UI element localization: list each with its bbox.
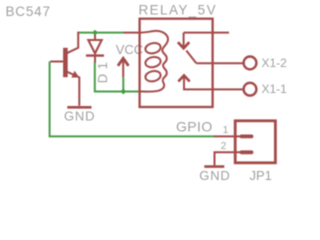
wire VCC to junction	[122, 77, 124, 91]
svg-text:RELAY_5V: RELAY_5V	[139, 3, 218, 18]
transistor Q BC547 base bar	[63, 48, 68, 77]
wire collector to relay top	[78, 32, 124, 34]
svg-text:GND: GND	[199, 168, 230, 183]
relay switch top contact pin	[184, 32, 229, 34]
relay common to X1-2 wire	[196, 62, 244, 64]
wire relay top pin stub	[124, 32, 141, 34]
diode D1 cathode bar	[86, 54, 104, 56]
svg-text:D1: D1	[95, 58, 110, 84]
terminal X1-1 circle	[244, 83, 257, 96]
svg-text:X1-1: X1-1	[262, 82, 288, 96]
diode D1 triangle	[88, 40, 101, 53]
ground GND right bar	[204, 165, 224, 168]
terminal X1-2 circle	[244, 57, 257, 70]
relay K1 box	[140, 19, 213, 107]
transistor emitter arrowhead	[71, 71, 79, 78]
relay coil loop 3	[144, 70, 161, 83]
transistor collector lead	[67, 32, 78, 54]
ground GND left bar	[67, 106, 91, 109]
connector JP1 box	[235, 121, 275, 163]
relay bottom contact to X1-1 wire	[183, 88, 245, 90]
relay switch top contact stem	[183, 33, 185, 47]
node junction below VCC	[120, 89, 126, 95]
svg-text:2: 2	[221, 141, 227, 152]
relay coil spine	[140, 31, 168, 92]
diode cathode lead	[94, 56, 96, 63]
transistor emitter lead	[67, 72, 80, 106]
power VCC arrow	[118, 58, 129, 66]
svg-text:BC547: BC547	[6, 4, 51, 19]
relay switch bottom contact arrowhead	[178, 75, 189, 81]
svg-text:GND: GND	[64, 108, 95, 123]
relay coil loop 2	[144, 56, 161, 69]
power VCC stem	[122, 59, 124, 78]
relay switch bottom contact stem	[183, 77, 185, 90]
wire base green bus	[50, 62, 215, 137]
diode anode lead	[94, 33, 96, 40]
wire diode bottom to relay bottom	[95, 62, 140, 92]
relay switch lever	[186, 51, 196, 64]
relay switch top contact arrowhead	[178, 42, 189, 48]
svg-text:1: 1	[223, 125, 229, 136]
transistor base lead	[50, 61, 63, 63]
connector JP1 pin2 lead	[215, 152, 243, 165]
node junction at diode top	[92, 30, 98, 36]
svg-text:GPIO: GPIO	[176, 119, 213, 135]
svg-text:JP1: JP1	[250, 168, 272, 183]
connector JP1 pin1 lead	[214, 135, 242, 137]
connector JP1 pin1 pad	[242, 134, 252, 138]
relay coil loop 1	[144, 42, 161, 55]
svg-text:X1-2: X1-2	[262, 56, 288, 70]
connector JP1 pin2 pad	[242, 150, 252, 154]
